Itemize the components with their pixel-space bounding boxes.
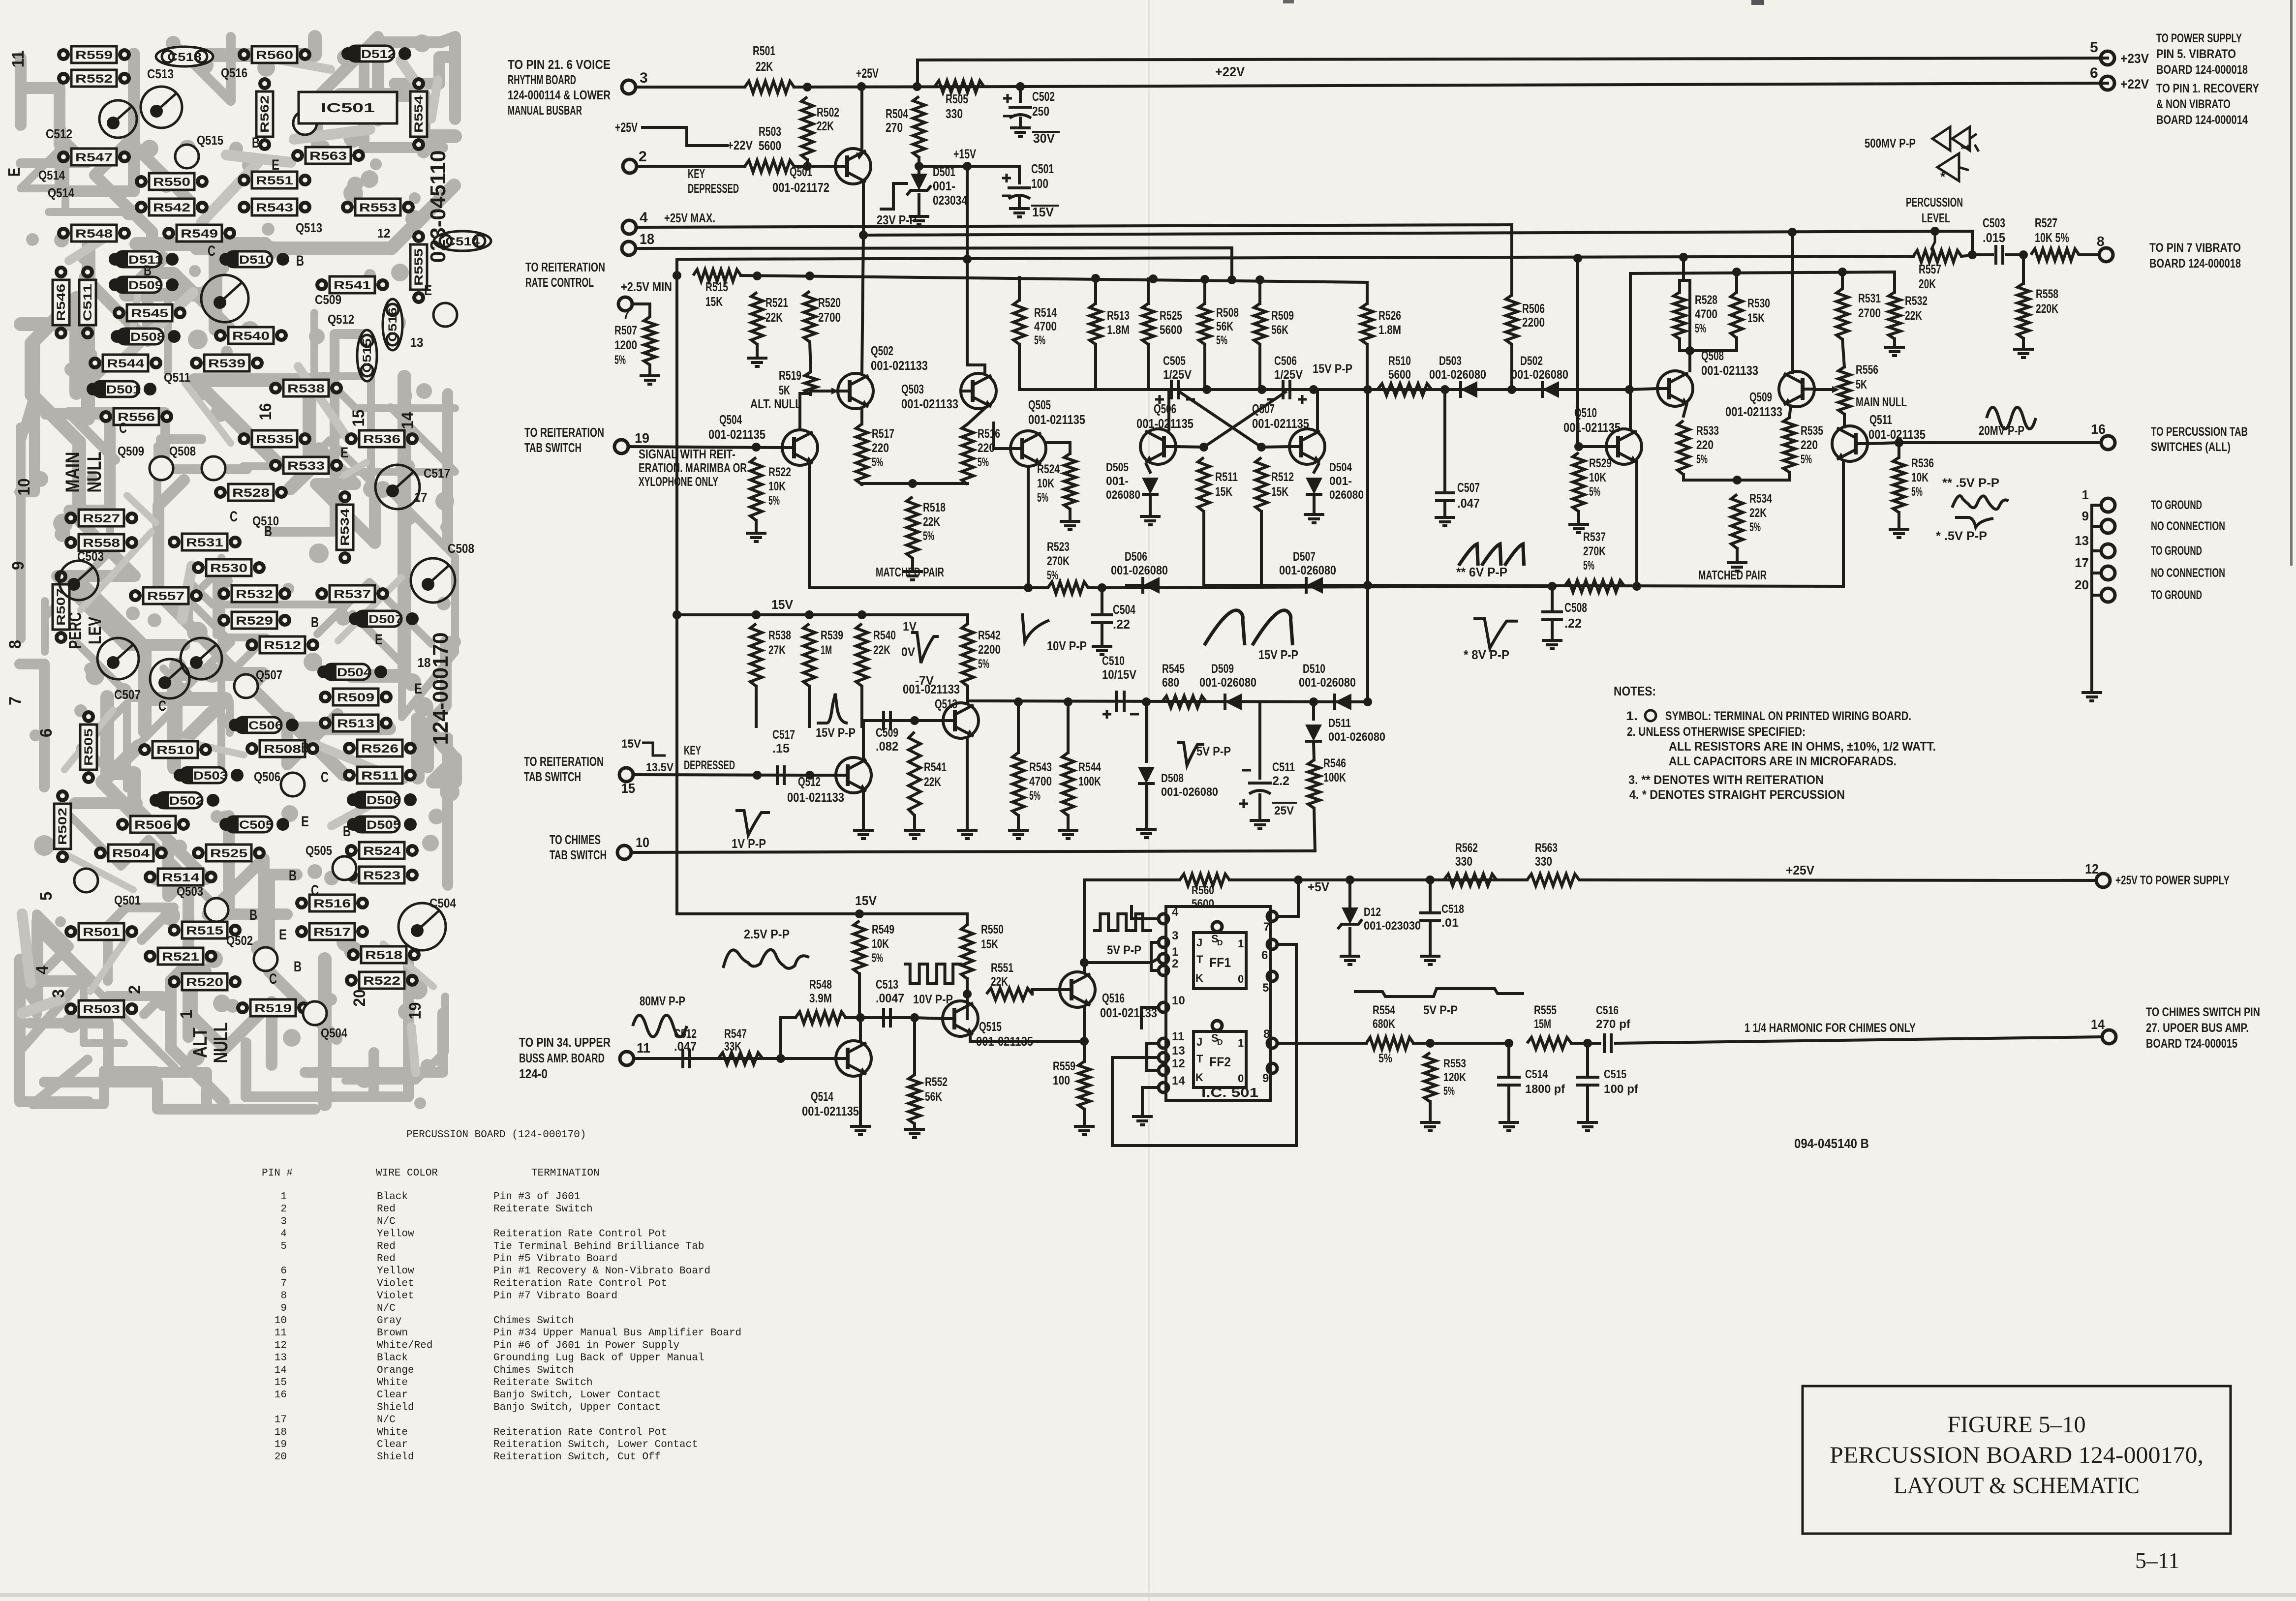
wire to Q508 base xyxy=(1629,389,1657,390)
svg-text:SYMBOL: TERMINAL ON PRINTED WI: SYMBOL: TERMINAL ON PRINTED WIRING BOARD… xyxy=(1665,709,1911,723)
svg-text:PERC: PERC xyxy=(65,612,85,649)
resistor R522 xyxy=(750,457,762,520)
svg-text:001-026080: 001-026080 xyxy=(1161,785,1218,799)
svg-text:R531: R531 xyxy=(1858,292,1881,305)
PCB resistor R556 xyxy=(99,410,112,423)
svg-text:001-: 001- xyxy=(1106,475,1129,488)
wire Q515 emitter xyxy=(970,1035,1084,1041)
svg-text:1: 1 xyxy=(1172,945,1178,959)
wire +22V bus to pin 6 xyxy=(1020,83,2108,87)
svg-text:R547: R547 xyxy=(75,151,113,164)
svg-text:R546: R546 xyxy=(1323,756,1346,770)
resistor R524 xyxy=(1064,453,1076,509)
svg-text:Q514: Q514 xyxy=(811,1089,833,1104)
PCB resistor R533 xyxy=(269,459,282,472)
svg-text:023-045110: 023-045110 xyxy=(426,151,450,263)
resistor R533 xyxy=(1684,405,1686,416)
svg-text:White/Red: White/Red xyxy=(377,1340,432,1351)
svg-text:15V: 15V xyxy=(771,597,794,612)
svg-text:R519: R519 xyxy=(254,1002,292,1015)
svg-text:Pin #1 Recovery & Non-Vibrato: Pin #1 Recovery & Non-Vibrato Board xyxy=(493,1266,710,1277)
svg-text:22K: 22K xyxy=(873,643,890,657)
svg-text:001-026080: 001-026080 xyxy=(1279,564,1336,577)
svg-text:R513: R513 xyxy=(1107,309,1130,323)
PCB capacitor C515 xyxy=(357,330,377,381)
svg-text:11: 11 xyxy=(637,1040,650,1056)
PCB transistor pads xyxy=(175,145,199,168)
PCB resistor R508 xyxy=(245,742,258,755)
PCB can capacitor C510 xyxy=(201,275,248,322)
svg-text:120K: 120K xyxy=(1443,1071,1467,1084)
svg-text:R514: R514 xyxy=(162,871,200,884)
svg-text:R521: R521 xyxy=(765,295,788,310)
resistor R547 xyxy=(718,1053,763,1064)
svg-text:.22: .22 xyxy=(1564,616,1582,631)
svg-text:19: 19 xyxy=(275,1439,287,1450)
node C508 top xyxy=(1548,582,1557,591)
node R509 top xyxy=(1255,275,1264,284)
PCB resistor R502 xyxy=(56,789,69,802)
svg-text:2: 2 xyxy=(1172,957,1178,970)
wire R520 to R519 xyxy=(810,342,811,372)
capacitor C505 xyxy=(1171,380,1178,399)
svg-text:R526: R526 xyxy=(361,742,398,755)
svg-text:Reiteration Switch, Lower Cont: Reiteration Switch, Lower Contact xyxy=(493,1439,698,1450)
svg-text:E: E xyxy=(424,282,432,299)
wire R550 to Q515 base and R551 xyxy=(966,979,969,1019)
svg-text:TO CHIMES SWITCH PIN: TO CHIMES SWITCH PIN xyxy=(2146,1005,2260,1019)
wire pin14 ground xyxy=(1142,1087,1158,1115)
svg-text:5%: 5% xyxy=(768,494,780,508)
svg-text:Red: Red xyxy=(377,1241,396,1252)
wire Q514 emitter xyxy=(859,1075,862,1124)
wire Q510 base xyxy=(1579,445,1606,448)
svg-text:R535: R535 xyxy=(256,433,293,446)
svg-text:Red: Red xyxy=(377,1253,396,1265)
PCB resistor R526 xyxy=(343,742,356,755)
wire cross couple 1 xyxy=(1204,392,1286,447)
svg-text:R526: R526 xyxy=(1378,309,1401,323)
svg-text:15: 15 xyxy=(621,781,635,796)
PCB resistor R517 xyxy=(295,925,308,938)
svg-text:R534: R534 xyxy=(1749,492,1772,506)
terminal 14 xyxy=(2102,1030,2116,1044)
svg-text:B: B xyxy=(252,135,260,151)
PCB resistor R530 xyxy=(192,561,205,574)
PCB resistor R504 xyxy=(94,846,107,859)
wire Q506 collector xyxy=(1167,390,1170,430)
svg-text:9: 9 xyxy=(9,561,28,570)
svg-text:R520: R520 xyxy=(186,976,223,989)
PCB transistor pads xyxy=(202,456,225,480)
svg-text:001-026080: 001-026080 xyxy=(1299,676,1356,690)
svg-text:2200: 2200 xyxy=(1522,315,1545,330)
diode D12 zener xyxy=(1348,880,1351,907)
svg-text:1: 1 xyxy=(177,1010,196,1019)
transistor Q515 xyxy=(943,1001,978,1036)
svg-text:100K: 100K xyxy=(1323,771,1346,785)
svg-text:.047: .047 xyxy=(1457,496,1480,511)
PCB transistor pads xyxy=(74,869,98,892)
PCB resistor R501 xyxy=(64,925,77,938)
PCB resistor R549 xyxy=(162,227,175,240)
svg-text:BOARD 124-000014: BOARD 124-000014 xyxy=(2156,113,2248,127)
wire feedback loop bottom xyxy=(1112,1057,1296,1146)
svg-text:B: B xyxy=(343,823,351,840)
svg-text:R531: R531 xyxy=(186,536,223,549)
svg-text:R558: R558 xyxy=(83,537,120,550)
svg-text:Reiteration Rate Control Pot: Reiteration Rate Control Pot xyxy=(493,1229,667,1240)
svg-text:R511: R511 xyxy=(361,769,398,783)
node R549 top xyxy=(855,909,864,918)
svg-text:3: 3 xyxy=(1172,929,1178,942)
svg-text:Q508: Q508 xyxy=(169,444,196,458)
wire pin11 12 stubs xyxy=(1146,1042,1158,1045)
svg-text:C501: C501 xyxy=(1031,161,1054,176)
terminal 9 xyxy=(2092,525,2101,528)
svg-text:0: 0 xyxy=(1238,973,1244,985)
svg-text:22K: 22K xyxy=(756,59,773,74)
svg-text:NO CONNECTION: NO CONNECTION xyxy=(2151,566,2225,580)
svg-text:Tie Terminal Behind Brilliance: Tie Terminal Behind Brilliance Tab xyxy=(493,1241,704,1252)
resistor R542 xyxy=(966,615,969,624)
svg-text:D503: D503 xyxy=(193,769,228,783)
capacitor C503 xyxy=(1972,253,1992,256)
node Q512 base xyxy=(805,771,814,780)
node R515 line left xyxy=(673,271,681,280)
svg-text:Chimes Switch: Chimes Switch xyxy=(493,1315,574,1327)
svg-text:D505: D505 xyxy=(367,818,401,832)
svg-text:R546: R546 xyxy=(55,284,68,321)
wire R501 to C502 node xyxy=(794,87,1020,87)
flip-flop FF2 xyxy=(1194,1031,1246,1087)
wire L1 down to R506 xyxy=(1510,225,1513,295)
svg-text:15V: 15V xyxy=(1032,205,1054,219)
svg-text:R532: R532 xyxy=(236,588,273,601)
svg-text:4700: 4700 xyxy=(1029,775,1052,788)
svg-text:1M: 1M xyxy=(821,643,832,657)
node Q501 base xyxy=(803,162,812,171)
svg-text:Pin #7 Vibrato Board: Pin #7 Vibrato Board xyxy=(493,1291,617,1302)
PCB resistor R554 xyxy=(412,77,425,90)
svg-text:11: 11 xyxy=(1172,1030,1184,1043)
svg-text:B: B xyxy=(264,523,272,540)
diode D505 xyxy=(1146,464,1150,472)
svg-text:R521: R521 xyxy=(162,950,199,964)
svg-text:White: White xyxy=(377,1427,408,1438)
svg-text:R533: R533 xyxy=(287,459,325,473)
svg-text:D12: D12 xyxy=(1364,906,1381,919)
PCB diode D505 xyxy=(347,818,360,831)
PCB diode D512 xyxy=(341,47,354,60)
node D508 top xyxy=(1142,697,1151,706)
PCB resistor R552 xyxy=(57,72,70,85)
svg-text:R502: R502 xyxy=(56,808,69,845)
wire R531 top xyxy=(1841,272,1844,289)
svg-text:NOTES:: NOTES: xyxy=(1614,684,1656,698)
wire +5V into pin7 xyxy=(1278,880,1298,916)
svg-text:R503: R503 xyxy=(759,124,781,139)
svg-text:15K: 15K xyxy=(981,937,998,951)
svg-text:15: 15 xyxy=(349,410,368,427)
resistor R549 xyxy=(854,921,865,974)
svg-text:5600: 5600 xyxy=(1160,323,1182,337)
diode D511 xyxy=(1312,702,1315,719)
svg-text:16: 16 xyxy=(2091,422,2106,437)
svg-text:R505: R505 xyxy=(946,91,968,106)
svg-text:R517: R517 xyxy=(872,427,894,441)
svg-text:15K: 15K xyxy=(1215,485,1232,499)
svg-text:7: 7 xyxy=(1263,920,1270,934)
svg-text:C514: C514 xyxy=(1525,1068,1548,1081)
node Q510 collector top xyxy=(1625,385,1634,394)
svg-text:220K: 220K xyxy=(2036,302,2058,316)
svg-text:13: 13 xyxy=(410,335,424,350)
svg-text:** 6V P-P: ** 6V P-P xyxy=(1456,565,1507,579)
resistor R501 xyxy=(745,81,794,93)
svg-text:Q504: Q504 xyxy=(719,412,742,427)
svg-text:10/15V: 10/15V xyxy=(1102,668,1136,682)
capacitor C516 xyxy=(1604,1033,1611,1053)
resistor R531 xyxy=(1837,289,1848,339)
wire R549 down to R548 node xyxy=(858,974,861,1018)
svg-text:B: B xyxy=(289,868,297,884)
svg-text:R551: R551 xyxy=(991,961,1013,975)
resistor R551 xyxy=(986,988,1032,1000)
svg-text:B: B xyxy=(294,959,302,975)
svg-text:R545: R545 xyxy=(1162,662,1185,676)
svg-text:001-026080: 001-026080 xyxy=(1111,564,1168,577)
resistor R544 xyxy=(1062,753,1074,816)
node C507 top xyxy=(1440,385,1449,394)
svg-text:8: 8 xyxy=(1263,1027,1270,1041)
svg-text:R558: R558 xyxy=(2036,287,2058,301)
resistor R537 xyxy=(1564,580,1624,592)
svg-text:4: 4 xyxy=(1172,906,1179,919)
PCB resistor R536 xyxy=(345,432,358,445)
resistor R560 xyxy=(1180,874,1229,886)
svg-text:Pin #34 Upper Manual Bus Ampli: Pin #34 Upper Manual Bus Amplifier Board xyxy=(493,1328,741,1339)
PCB resistor R555 xyxy=(412,230,425,243)
svg-text:E: E xyxy=(414,681,422,697)
svg-text:PIN #: PIN # xyxy=(262,1168,293,1179)
svg-text:RHYTHM BOARD: RHYTHM BOARD xyxy=(508,72,576,87)
IC right pins xyxy=(1267,911,1277,921)
svg-text:C504: C504 xyxy=(1113,602,1135,617)
PCB resistor R516 xyxy=(295,897,308,909)
svg-text:9: 9 xyxy=(280,1303,287,1314)
svg-text:R553: R553 xyxy=(1443,1057,1466,1070)
svg-text:TERMINATION: TERMINATION xyxy=(531,1168,600,1179)
resistor R559 xyxy=(1083,1041,1086,1061)
PCB resistor R523 xyxy=(345,869,358,881)
svg-text:Reiteration Rate Control Pot: Reiteration Rate Control Pot xyxy=(493,1278,667,1289)
svg-text:D506: D506 xyxy=(367,794,401,807)
svg-text:10K: 10K xyxy=(1589,471,1606,484)
terminal 19 xyxy=(614,440,628,453)
resistor R545 xyxy=(1162,696,1206,708)
svg-text:C502: C502 xyxy=(1032,89,1055,104)
svg-text:80MV P-P: 80MV P-P xyxy=(640,994,685,1008)
node base R502 xyxy=(803,83,812,91)
svg-text:R504: R504 xyxy=(886,106,908,121)
svg-text:+2.5V MIN: +2.5V MIN xyxy=(621,279,672,294)
svg-text:8: 8 xyxy=(2097,234,2105,249)
svg-text:100K: 100K xyxy=(1078,775,1101,788)
svg-text:BOARD T24-000015: BOARD T24-000015 xyxy=(2146,1037,2237,1051)
svg-text:C509: C509 xyxy=(315,292,341,307)
wire R560 to +5V node xyxy=(1229,878,1527,881)
PCB resistor R541 xyxy=(315,278,328,291)
svg-text:White: White xyxy=(377,1377,408,1389)
svg-text:C: C xyxy=(230,509,238,525)
svg-text:001-021135: 001-021135 xyxy=(1028,412,1085,427)
svg-text:D501: D501 xyxy=(106,383,141,396)
PCB resistor R553 xyxy=(341,201,354,213)
wire chimes rise xyxy=(1314,808,1315,851)
resistor R503 xyxy=(745,160,794,172)
node C517 left xyxy=(753,771,762,780)
svg-text:R508: R508 xyxy=(1216,306,1239,320)
svg-text:R540: R540 xyxy=(873,629,896,642)
PCB diode D502 xyxy=(150,794,162,807)
svg-text:C507: C507 xyxy=(114,687,141,702)
wire x3314 vertical to y792 xyxy=(1629,273,1632,389)
PCB resistor R539 xyxy=(190,357,203,369)
svg-text:R523: R523 xyxy=(1047,540,1070,554)
svg-text:15K: 15K xyxy=(705,294,723,309)
PCB resistor R543 xyxy=(238,201,250,213)
svg-text:Q514: Q514 xyxy=(38,168,65,182)
svg-text:001-021135: 001-021135 xyxy=(1136,416,1194,431)
svg-text:4: 4 xyxy=(280,1229,287,1240)
svg-text:SWITCHES (ALL): SWITCHES (ALL) xyxy=(2151,440,2231,454)
wire pin2 to R503 xyxy=(637,165,745,168)
svg-text:R522: R522 xyxy=(363,974,400,988)
svg-text:R510: R510 xyxy=(1388,354,1411,368)
terminal 18 xyxy=(622,242,636,255)
capacitor C509 xyxy=(884,711,890,730)
svg-text:D510: D510 xyxy=(239,253,274,267)
wire pin4 loop top xyxy=(1132,906,1158,919)
svg-text:C503: C503 xyxy=(77,549,104,564)
PCB diode D511 xyxy=(109,253,122,266)
svg-text:C505: C505 xyxy=(1163,354,1186,368)
svg-text:R544: R544 xyxy=(107,357,145,370)
wire Q501 collector xyxy=(860,87,863,152)
svg-text:Reiteration Switch, Cut Off: Reiteration Switch, Cut Off xyxy=(493,1451,661,1463)
svg-text:3.9M: 3.9M xyxy=(809,992,832,1005)
PCB can capacitor C503 xyxy=(59,561,98,600)
svg-text:270K: 270K xyxy=(1047,554,1070,568)
PCB diode D509 xyxy=(109,278,122,291)
terminal 8 xyxy=(2079,253,2099,256)
PCB diode D510 xyxy=(219,253,232,266)
resistor R523 xyxy=(1048,582,1088,594)
svg-text:13: 13 xyxy=(275,1353,287,1364)
wire FF outputs right rail xyxy=(1278,944,1296,1146)
svg-text:R503: R503 xyxy=(83,1003,120,1016)
svg-text:25V: 25V xyxy=(1274,804,1294,817)
wire L4/R515 corner xyxy=(675,259,678,275)
svg-text:C509: C509 xyxy=(876,726,898,740)
PCB resistor R551 xyxy=(238,174,250,186)
svg-text:001-021133: 001-021133 xyxy=(1701,363,1758,378)
svg-text:C506: C506 xyxy=(248,719,283,732)
svg-text:R539: R539 xyxy=(821,629,843,642)
wire Q510 collector xyxy=(1629,389,1632,430)
svg-text:124-000170: 124-000170 xyxy=(429,633,453,745)
svg-text:+22V: +22V xyxy=(727,138,753,152)
PCB capacitor C514 xyxy=(434,231,491,251)
svg-text:C510: C510 xyxy=(1102,654,1125,668)
svg-text:C: C xyxy=(269,971,277,987)
PCB resistor R531 xyxy=(168,536,181,548)
PCB resistor R532 xyxy=(217,587,230,600)
capacitor C504 xyxy=(1101,588,1103,612)
transistor Q501 xyxy=(835,149,871,184)
resistor R514 xyxy=(1013,300,1025,344)
svg-text:001-023030: 001-023030 xyxy=(1364,919,1421,933)
svg-text:2700: 2700 xyxy=(818,310,841,325)
transistor Q507 xyxy=(1289,429,1325,464)
wire Q505 right to R524 xyxy=(1046,443,1070,453)
transistor Q509 xyxy=(1779,371,1814,407)
svg-text:E: E xyxy=(375,632,383,648)
svg-text:3. ** DENOTES WITH REITERATION: 3. ** DENOTES WITH REITERATION xyxy=(1628,773,1824,787)
svg-text:220: 220 xyxy=(978,441,995,455)
terminal 6 +22V xyxy=(2101,76,2114,90)
svg-text:4. * DENOTES STRAIGHT PERCUSS: 4. * DENOTES STRAIGHT PERCUSSION xyxy=(1629,788,1845,802)
capacitor C506 xyxy=(1283,380,1290,399)
svg-text:PERCUSSION BOARD 124-000170,: PERCUSSION BOARD 124-000170, xyxy=(1830,1442,2204,1468)
svg-text:ALT: ALT xyxy=(189,1027,211,1058)
resistor R554 xyxy=(1366,1037,1413,1049)
svg-text:IC501: IC501 xyxy=(321,100,375,115)
node c505 left xyxy=(1202,385,1211,394)
svg-text:Q511: Q511 xyxy=(1869,412,1892,427)
node +15V junction xyxy=(915,162,923,171)
wire pin11 line xyxy=(634,1057,836,1060)
PCB can capacitor C508 xyxy=(411,558,455,603)
svg-text:TO PERCUSSION TAB: TO PERCUSSION TAB xyxy=(2151,425,2248,439)
svg-text:TO PIN 21. 6 VOICE: TO PIN 21. 6 VOICE xyxy=(508,57,611,72)
svg-text:5%: 5% xyxy=(614,353,626,367)
svg-text:13.5V: 13.5V xyxy=(646,761,673,774)
node R504 top xyxy=(913,82,921,91)
waveform 5V P-P dip xyxy=(1177,743,1204,765)
svg-text:Red: Red xyxy=(377,1204,396,1215)
svg-text:5600: 5600 xyxy=(759,138,781,153)
wire pin16 line xyxy=(1899,441,2101,444)
svg-text:D504: D504 xyxy=(1329,461,1352,474)
svg-text:20MV P-P: 20MV P-P xyxy=(1979,423,2024,438)
svg-text:TO PIN 34. UPPER: TO PIN 34. UPPER xyxy=(519,1035,611,1050)
svg-text:FF1: FF1 xyxy=(1209,955,1231,970)
PCB resistor R529 xyxy=(217,614,230,627)
svg-text:PIN 5. VIBRATO: PIN 5. VIBRATO xyxy=(2156,47,2236,61)
capacitor C512 xyxy=(683,1049,690,1068)
svg-text:R537: R537 xyxy=(334,588,371,601)
svg-text:2200: 2200 xyxy=(978,643,1001,657)
PCB diode C505 xyxy=(219,818,232,831)
PCB resistor R548 xyxy=(57,227,70,240)
svg-text:15V: 15V xyxy=(855,893,877,908)
wire pin4 line L1 xyxy=(636,225,1512,227)
svg-text:D510: D510 xyxy=(1303,662,1325,676)
wire +25V line to pin12 xyxy=(1579,880,2096,880)
svg-text:Clear: Clear xyxy=(377,1390,408,1401)
